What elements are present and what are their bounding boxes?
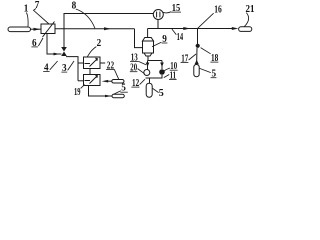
label 22: [106, 60, 119, 79]
label 17: [181, 53, 196, 64]
wire drop to vessel 9 left feed: [135, 29, 143, 48]
wire connector between boxes: [89, 69, 91, 75]
wire valve drop: [63, 29, 65, 47]
junction dot 18: [196, 44, 200, 48]
label 15: [163, 3, 182, 14]
wire inlet to box 7 with arrow: [31, 28, 42, 31]
label 5c: [114, 82, 128, 94]
box 7: [41, 22, 55, 38]
wire box 7 bottom pipe with arrow: [47, 34, 62, 56]
label 12: [131, 78, 145, 89]
label 8: [72, 1, 95, 29]
label 3: [61, 61, 74, 74]
wire spray header: [148, 60, 163, 62]
wire stub from box 1 right: [100, 62, 105, 64]
outlet capsule 5c: [112, 94, 124, 97]
svg-text:14: 14: [177, 32, 184, 43]
vessel 9: [143, 38, 154, 57]
svg-text:5: 5: [159, 88, 164, 99]
wire right branch drop: [197, 29, 199, 45]
wire riser and top line B: [64, 14, 153, 29]
wire line C to outlet: [148, 27, 239, 30]
wire top pipe into vessel 9: [147, 29, 149, 38]
label 10: [164, 61, 177, 72]
inlet capsule 22: [112, 80, 124, 84]
wire main line A: [55, 27, 135, 30]
label 1: [24, 4, 29, 27]
label 21: [244, 4, 254, 27]
svg-text:19: 19: [74, 87, 81, 98]
label 5b: [153, 88, 164, 99]
wire pump drop: [157, 20, 159, 29]
label 20: [130, 63, 145, 74]
label 6: [31, 38, 43, 49]
label 11: [164, 70, 177, 81]
label 16: [198, 5, 222, 29]
nozzle capsule 5a: [194, 65, 199, 77]
wire vessel bottom pipe: [147, 56, 149, 61]
label 4: [43, 61, 57, 73]
valve V: [61, 47, 67, 56]
wire drop to capsule B: [149, 78, 151, 83]
wire branch lower with up arrow: [195, 48, 199, 65]
label 2: [87, 38, 101, 57]
wire capsule to box 2 with left arrow: [102, 80, 112, 83]
wire right drop with arrow: [160, 61, 164, 70]
wire stub to damper box 1: [78, 62, 84, 64]
svg-text:5: 5: [121, 82, 126, 93]
label 13: [130, 52, 146, 65]
outlet capsule 21: [239, 27, 252, 32]
svg-text:2: 2: [97, 38, 102, 49]
wire lower header: [146, 75, 163, 78]
inlet capsule 1: [8, 27, 31, 32]
wire box 2 outlet pipe: [89, 86, 113, 98]
damper box 1: [84, 57, 101, 69]
nozzle capsule 5b: [146, 83, 152, 97]
wire left drop with arrow: [146, 61, 150, 70]
label 7: [34, 0, 50, 24]
label 18: [201, 48, 219, 64]
label 9: [152, 34, 167, 47]
svg-text:16: 16: [214, 5, 222, 16]
damper box 2: [84, 75, 101, 86]
label 19: [74, 85, 85, 98]
wire stub to damper box 2: [78, 80, 84, 82]
wire valve outlet to damper feed: [66, 57, 78, 81]
nozzle dot 10: [159, 69, 165, 75]
label 14: [172, 29, 183, 43]
svg-text:8: 8: [72, 1, 77, 12]
pump P15: [153, 10, 163, 20]
nozzle circle 12: [144, 70, 150, 76]
label 5a: [200, 68, 217, 79]
